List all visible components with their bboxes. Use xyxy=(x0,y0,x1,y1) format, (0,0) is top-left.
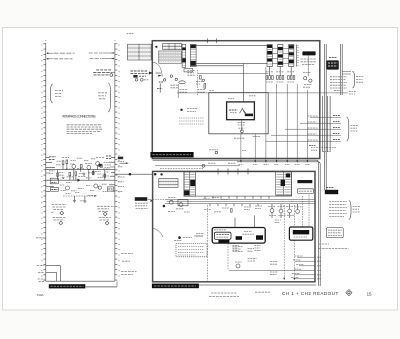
resistor R1036 xyxy=(57,173,59,177)
wire stubs transistor row xyxy=(272,204,298,218)
test point dot xyxy=(160,173,162,175)
wire dashed drops to gate box2 xyxy=(303,194,310,226)
transistor Q1025 xyxy=(96,162,100,166)
bracket ch2 readout data xyxy=(349,201,360,220)
bottom small note xyxy=(255,291,270,293)
cluster labels xyxy=(168,197,190,212)
transistor Q3107 xyxy=(296,210,300,214)
transistor Q1043 xyxy=(94,184,98,188)
bottom-center labels xyxy=(233,246,257,262)
connector ladder P3101 xyxy=(276,172,292,195)
label ellipse C2011 xyxy=(179,81,185,84)
svg-text:INTERFACE CONNECTIONS: INTERFACE CONNECTIONS xyxy=(62,114,95,118)
component box xyxy=(178,200,188,206)
trig pickoff signal rows xyxy=(266,116,341,142)
svg-text:15: 15 xyxy=(367,291,372,296)
gate labels lower xyxy=(270,262,278,275)
labels under Q2011 group xyxy=(157,82,206,92)
connector ladder P3001 xyxy=(184,172,196,196)
wire drops into switch box xyxy=(235,216,254,228)
value labels mid cluster xyxy=(66,163,110,176)
wire light row 2 xyxy=(46,271,57,273)
label near ground xyxy=(80,200,84,202)
wire inter-board row 2 xyxy=(160,150,218,169)
wire dashed drop from box xyxy=(227,244,229,270)
wire dashed feedback xyxy=(197,70,199,96)
wire entry row xyxy=(156,73,162,77)
callout group 3 xyxy=(53,218,66,225)
test point dot mid board xyxy=(180,109,182,111)
wire rail bundle lower xyxy=(153,160,321,286)
node VERT SIG OUT label xyxy=(47,58,73,60)
ground xyxy=(73,200,76,202)
resistor network R2102 xyxy=(276,72,284,82)
capacitor C1034 xyxy=(62,177,65,178)
partial board ref label box xyxy=(297,189,313,194)
switch logic box xyxy=(212,228,265,244)
transistor Q2011 xyxy=(163,79,165,81)
bracket ch1 readout data xyxy=(352,71,363,88)
extra cluster labels row a xyxy=(49,158,110,193)
bracket trig pickoff xyxy=(347,117,358,141)
node MODE label xyxy=(36,237,44,239)
boxed label right TP1041 xyxy=(107,187,113,191)
strip top pin marks xyxy=(45,40,115,42)
wire stubs from right strip xyxy=(109,157,115,191)
svg-text:CH 1 + CH2 READOUT: CH 1 + CH2 READOUT xyxy=(282,291,339,296)
connector ladder P2001 xyxy=(182,44,186,67)
node +LIGHTS right label xyxy=(122,260,130,262)
resistor R1044 xyxy=(104,174,106,177)
wire from delay box down xyxy=(241,120,243,131)
A3 readout board label bar xyxy=(152,284,199,289)
callout group 2 right xyxy=(97,206,114,216)
transistor Q3106 xyxy=(288,209,292,213)
jumper table upper xyxy=(163,44,182,50)
transistor Q2015 xyxy=(202,79,204,81)
dotted option table xyxy=(176,244,207,257)
wire ticks crossing top border xyxy=(208,38,217,43)
test point dot lower xyxy=(178,236,181,239)
arrowheads at board gap xyxy=(240,160,308,163)
ground xyxy=(83,201,86,202)
gate labels below switch box xyxy=(233,245,261,250)
wire light row xyxy=(46,265,61,267)
cable label block xyxy=(327,58,339,70)
node READOUT CODE OUTPUT note xyxy=(93,70,115,77)
test point TP2010 xyxy=(155,46,157,48)
wire bus lower xyxy=(177,92,320,94)
resistor network R2103 xyxy=(287,72,295,82)
board bottom shadow xyxy=(155,284,316,286)
inner shield box xyxy=(209,93,268,134)
wire bus mid2 xyxy=(196,65,243,67)
connector ladder P2102 xyxy=(278,45,283,67)
bottom middle two-line note xyxy=(209,293,239,297)
label right cluster xyxy=(105,165,112,168)
transistor Q2012 xyxy=(170,75,172,77)
edge connector J2 right strip xyxy=(115,43,119,281)
reference note box xyxy=(327,228,344,238)
wire dashed return xyxy=(63,195,97,197)
edge connector J1 left strip xyxy=(42,43,46,281)
transistor Q3104 xyxy=(270,209,274,213)
connector ladder P2002 xyxy=(190,44,196,66)
arrowheads at board bottom xyxy=(283,278,295,281)
wire cable rail pair B xyxy=(341,44,343,95)
A1 interface board label bar xyxy=(49,281,117,288)
node VERT SIG label xyxy=(90,58,115,60)
wire bus stubs left xyxy=(153,198,165,200)
ladder tie lines xyxy=(272,49,288,64)
right cluster labels xyxy=(303,73,312,88)
node TRACE SEP label xyxy=(38,279,45,282)
resistor R1022 xyxy=(66,160,68,164)
transistor Q2105 xyxy=(304,77,307,80)
callout group 1 trigger selected xyxy=(51,205,66,215)
ch2 readout connector rows xyxy=(329,201,347,216)
wire inter-board row 1 xyxy=(155,163,240,167)
boxed label TP1033 xyxy=(50,188,58,192)
diode CR1032 xyxy=(78,179,81,182)
circle terminal below delay box xyxy=(241,130,244,133)
wire cable rail pair A xyxy=(325,44,327,190)
wire bus top xyxy=(196,44,267,46)
transistor Q2106 xyxy=(309,79,312,82)
capacitor C1032 xyxy=(83,173,86,177)
callout group 4 xyxy=(99,218,111,226)
transistor Q3105 xyxy=(279,209,283,213)
pin number column xyxy=(297,45,298,67)
connector J30 long body xyxy=(184,168,292,198)
mid cluster labels lower board xyxy=(203,198,232,213)
gate selector box xyxy=(289,227,312,240)
transistor Q1031 xyxy=(65,186,69,190)
bracket trig selector pins xyxy=(98,83,111,112)
delay line assembly box xyxy=(227,102,255,120)
label marks below inner box xyxy=(234,137,260,139)
readout label bar right xyxy=(325,188,338,195)
main interface board pointer note xyxy=(135,197,153,208)
svg-text:740A: 740A xyxy=(37,293,44,297)
footnote text right xyxy=(319,244,349,248)
wire dashed gate drops xyxy=(284,205,294,280)
bus tick stubs xyxy=(210,204,258,207)
A2 readout board label bar xyxy=(150,152,193,157)
resistor R2015 xyxy=(200,76,202,80)
signal grid table xyxy=(159,179,178,188)
resistor R1021 xyxy=(62,161,64,165)
wire to inner box bottom xyxy=(241,133,243,134)
transistor Q3011 xyxy=(169,200,173,204)
pin flag labels right of strip xyxy=(118,157,125,192)
resistor R1033 xyxy=(75,172,77,175)
wire bus rows lower board xyxy=(165,199,315,203)
gate labels xyxy=(275,220,281,223)
transistor Q2014 xyxy=(175,78,177,80)
sequencing label blob xyxy=(302,51,315,55)
transistor Q1044 xyxy=(98,186,101,189)
jumper strap table left outside xyxy=(128,44,152,60)
resistor R1031 xyxy=(69,172,71,175)
wire drops from ladders xyxy=(270,67,292,76)
test point labels xyxy=(187,109,198,112)
node VERT CAG label xyxy=(89,52,115,54)
connector ladder P2103 xyxy=(289,45,294,67)
resistor network R2101 xyxy=(266,72,274,82)
lower-left cluster labels xyxy=(153,228,203,241)
wire arc into board xyxy=(153,62,163,77)
dotted option grid mid board xyxy=(179,118,204,124)
label left of switch box xyxy=(196,233,204,236)
sequencing note lines xyxy=(301,59,317,65)
label above delay box xyxy=(228,96,256,99)
wire bottom run xyxy=(46,266,115,282)
wire main bus upper xyxy=(46,169,115,171)
junction dot xyxy=(163,205,166,208)
wire from blob down xyxy=(307,55,309,76)
wire verticals joining buses xyxy=(58,164,105,181)
circled test point xyxy=(236,264,240,268)
wire stubs from left strip xyxy=(46,157,55,191)
transistor Q1026 pair dark xyxy=(98,164,101,167)
wire arrow row into gap xyxy=(120,162,129,164)
label mark 1011 above board xyxy=(127,32,134,34)
wire bus y73.6 xyxy=(198,73,268,75)
wire rail bundle mid xyxy=(323,96,331,152)
wire drop to ground 2 xyxy=(84,196,86,201)
wire stub down xyxy=(159,83,161,92)
wire aux row xyxy=(320,91,356,94)
main interface arrow note xyxy=(131,71,154,81)
resistor R1042 xyxy=(92,171,94,175)
wire dashed center drop xyxy=(207,205,209,281)
wire row with junction dots xyxy=(115,173,157,176)
transistor Q3013 xyxy=(179,203,183,207)
node +5V labels row xyxy=(49,156,112,159)
node TRACE SEP BAL right label xyxy=(121,253,133,255)
transistor Q1023 xyxy=(87,166,91,170)
connector ladder P2101 xyxy=(267,45,272,67)
readout board A2 outline xyxy=(152,41,319,159)
node +LIGHT label xyxy=(37,265,45,267)
node +5V dashed row xyxy=(309,145,337,147)
bracket trig switch pins xyxy=(50,84,63,103)
wire data lines down to lower board xyxy=(241,67,308,162)
node LIGHT label xyxy=(38,271,45,273)
vert readout board A3 outline xyxy=(153,171,315,281)
wire main bus lower xyxy=(46,179,115,181)
signal table rows xyxy=(159,51,182,63)
resistor column R2013 labels xyxy=(184,69,195,76)
transistor row labels xyxy=(244,206,302,216)
node VERT MAIN CAG label xyxy=(47,52,75,54)
wire drop to ground xyxy=(73,196,75,200)
delay line labels below xyxy=(238,122,246,128)
note paragraph xyxy=(67,125,102,134)
node TRACE SEP BLANKING label xyxy=(121,272,137,275)
ch1 readout connector rows xyxy=(330,72,351,88)
wire bus mid1 xyxy=(196,62,267,64)
resistor R1025 xyxy=(80,164,82,167)
diamond symbol xyxy=(346,289,352,295)
resistor C2021 cluster xyxy=(196,81,215,90)
wire from ellipse down xyxy=(177,84,179,98)
boxed label TP1031 xyxy=(50,178,58,184)
transistor Q1021 xyxy=(72,165,76,169)
wire delay box feed xyxy=(243,63,245,102)
bottom right signal rows xyxy=(229,256,322,279)
transistor Q1047 xyxy=(100,164,103,167)
switch label blob xyxy=(297,180,312,183)
